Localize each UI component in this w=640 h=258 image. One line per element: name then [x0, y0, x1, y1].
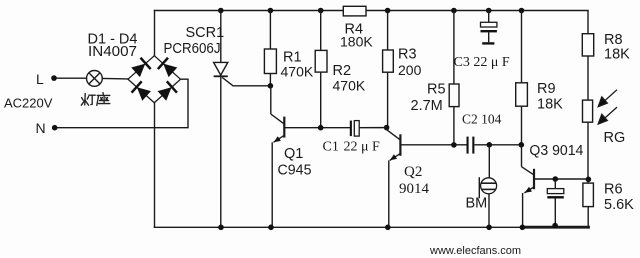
node R3/C1/Q2-collector junction	[384, 125, 390, 131]
wire R2 top lead	[320, 11, 322, 51]
svg-text:N: N	[36, 120, 46, 136]
node R5/Q2-base/C2 junction	[451, 142, 457, 148]
wire R3 top lead	[387, 11, 389, 51]
wire C2 to R9 node	[474, 144, 521, 146]
svg-text:Q1: Q1	[284, 146, 303, 162]
node RG/R6/Q3-base junction	[586, 177, 592, 183]
svg-text:SCR1: SCR1	[186, 25, 225, 41]
diode bridge D1-D4 outline	[128, 56, 181, 103]
node R9/C2/Q3-collector junction	[519, 142, 525, 148]
capacitor (Q3 base filter, electrolytic)	[547, 179, 564, 226]
lamp socket (灯座) symbol	[87, 71, 103, 87]
node bottom rail junction at Q1 emitter	[268, 225, 274, 231]
capacitor C1 22uF	[350, 121, 387, 137]
node top rail junction at R2	[318, 8, 324, 14]
node top rail junction at C3	[486, 8, 492, 14]
diode upper-left (points to top vertex)	[131, 58, 151, 78]
transistor Q1 C945	[271, 86, 350, 228]
RG light arrow 2	[598, 107, 617, 124]
wire R3 bottom lead	[387, 72, 389, 127]
svg-text:C3 22 μ F: C3 22 μ F	[454, 55, 510, 70]
wire right column: top rail corner down to R8	[587, 11, 589, 34]
svg-text:180K: 180K	[340, 34, 373, 50]
svg-text:BM: BM	[466, 196, 488, 212]
resistor R8	[582, 34, 593, 56]
resistor R2	[315, 50, 327, 72]
svg-text:R9: R9	[537, 81, 556, 97]
resistor R9	[516, 83, 528, 106]
diode upper-right (points to top vertex)	[158, 58, 178, 78]
svg-text:C945: C945	[278, 163, 312, 179]
node R2/C1/Q1-base junction	[318, 125, 324, 131]
svg-text:L: L	[36, 71, 44, 87]
wire SCR anode	[220, 11, 222, 63]
svg-text:200: 200	[398, 62, 422, 78]
wire L terminal to lamp	[56, 77, 87, 79]
wire top rail	[155, 10, 589, 12]
wire bottom rail thick segment	[523, 226, 589, 229]
resistor R6	[583, 183, 594, 207]
wire R9 top lead	[521, 11, 523, 83]
wire R2 bottom lead	[320, 72, 322, 128]
photoresistor RG	[583, 100, 593, 122]
node N terminal dot	[52, 125, 58, 131]
svg-text:R3: R3	[398, 47, 417, 63]
resistor R4 (in top rail)	[343, 6, 366, 16]
wire SCR gate to R1 node	[222, 78, 270, 86]
capacitor C2 104	[467, 137, 475, 154]
resistor R3	[383, 50, 394, 72]
svg-text:C2 104: C2 104	[462, 112, 502, 127]
node bottom rail junction at BM	[486, 225, 492, 231]
wire left column upper (bridge + to top rail)	[154, 11, 156, 57]
wire R6 bottom lead	[587, 207, 589, 228]
svg-text:RG: RG	[604, 130, 626, 146]
wire R8 to RG	[587, 56, 589, 100]
wire R1 top lead	[269, 11, 271, 50]
microphone BM	[479, 145, 496, 228]
node top rail junction at R5	[451, 8, 457, 14]
svg-text:18K: 18K	[604, 46, 630, 62]
svg-text:IN4007: IN4007	[88, 44, 137, 60]
svg-text:R5: R5	[427, 82, 446, 98]
node bottom rail junction at Q2 emitter	[385, 225, 391, 231]
resistor R5	[449, 84, 459, 107]
wire bottom rail	[155, 226, 523, 228]
svg-text:9014: 9014	[399, 181, 430, 197]
capacitor C3 22uF (electrolytic)	[481, 11, 497, 45]
wire lamp to bridge left vertex	[102, 77, 128, 80]
diode lower-right (points to right vertex)	[157, 81, 177, 101]
transistor Q2 9014	[387, 128, 467, 228]
svg-text:470K: 470K	[333, 78, 366, 94]
node R1/SCR-gate/Q1-collector junction	[268, 83, 274, 89]
node L terminal dot	[51, 75, 57, 81]
svg-text:470K: 470K	[281, 64, 314, 80]
svg-text:18K: 18K	[537, 97, 563, 113]
node top rail junction at R3	[385, 8, 391, 14]
wire N terminal to bridge right vertex	[57, 79, 188, 128]
svg-text:Q3 9014: Q3 9014	[529, 143, 583, 159]
node bottom rail junction at filter cap	[552, 223, 558, 229]
node top rail junction at R9	[519, 8, 525, 14]
wire R5 top lead	[453, 11, 455, 85]
svg-text:5.6K: 5.6K	[604, 197, 634, 213]
svg-text:PCR606J: PCR606J	[164, 41, 221, 57]
diode lower-left (points to left vertex)	[132, 81, 152, 101]
node bottom rail junction at Q3 emitter	[520, 225, 526, 231]
wire left column lower (bridge - to bottom rail)	[154, 103, 156, 228]
svg-text:C1 22 μ F: C1 22 μ F	[323, 140, 381, 155]
node top rail junction at R1	[268, 8, 274, 14]
resistor R1	[264, 49, 276, 74]
transistor Q3 9014	[522, 145, 589, 228]
svg-text:2.7M: 2.7M	[411, 98, 443, 114]
svg-text:R6: R6	[604, 182, 623, 198]
svg-text:Q2: Q2	[404, 164, 422, 180]
wire SCR cathode to bottom rail	[220, 76, 222, 227]
wire R5 bottom lead	[453, 107, 455, 145]
node bottom rail junction at SCR	[218, 225, 224, 231]
RG light arrow 1	[598, 90, 617, 107]
node top rail junction at SCR	[218, 8, 224, 14]
wire R9 bottom lead	[521, 106, 523, 145]
node Q3-base/filter-cap junction	[553, 176, 559, 182]
wire R1 bottom lead	[269, 74, 271, 86]
thyristor SCR1 PCR606J	[214, 62, 228, 76]
svg-text:www.elecfans.com: www.elecfans.com	[429, 245, 521, 257]
svg-text:AC220V: AC220V	[4, 96, 53, 111]
label 灯座 (hand-drawn glyphs)	[81, 93, 110, 106]
node C2/BM junction	[487, 142, 493, 148]
wire RG to Q3-base/R6 node	[587, 122, 589, 183]
